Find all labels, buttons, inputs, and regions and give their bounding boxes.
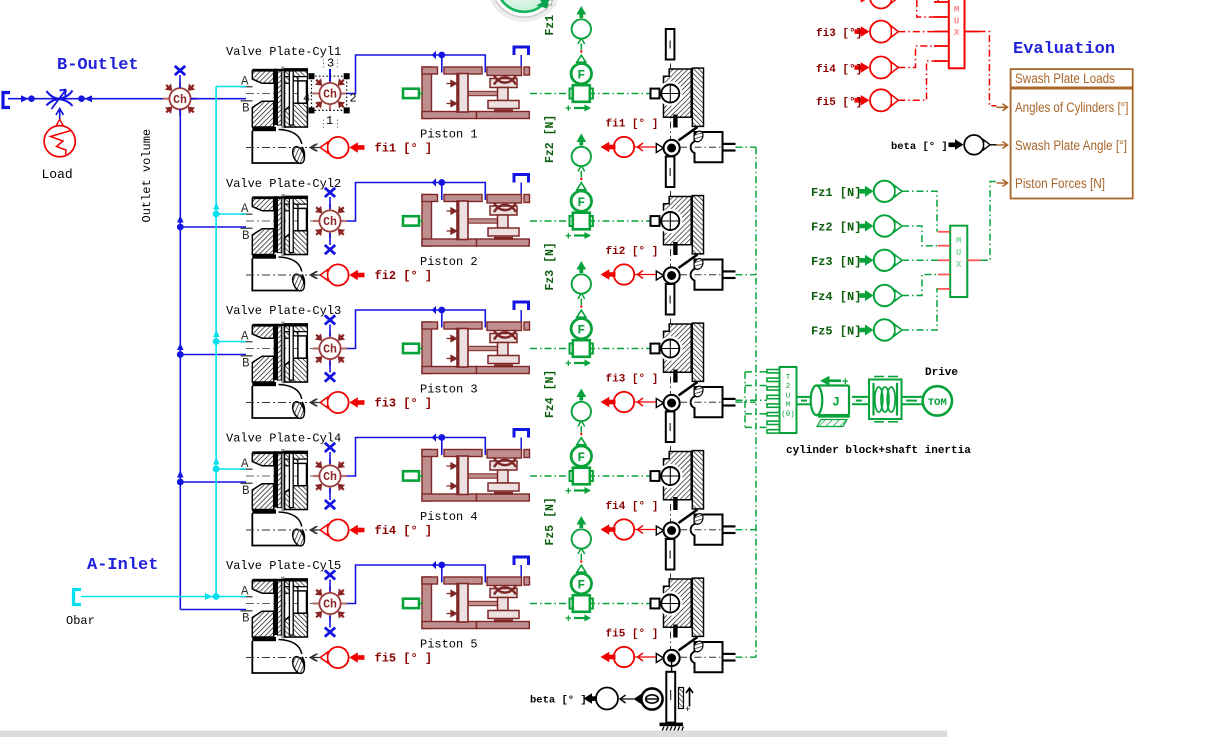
svg-text:1: 1 <box>326 114 333 128</box>
svg-text:fi2 [° ]: fi2 [° ] <box>375 269 433 283</box>
svg-text:U: U <box>954 17 959 27</box>
svg-text:M: M <box>954 5 959 15</box>
svg-text:Fz4 [N]: Fz4 [N] <box>544 370 557 418</box>
svg-text:Fz2 [N]: Fz2 [N] <box>544 115 557 163</box>
svg-text:Piston 3: Piston 3 <box>420 383 478 397</box>
svg-text:T: T <box>786 374 791 382</box>
svg-text:Fz2 [N]: Fz2 [N] <box>811 221 861 235</box>
svg-text:Fz5 [N]: Fz5 [N] <box>811 325 861 339</box>
svg-text:fi5 [° ]: fi5 [° ] <box>375 652 433 666</box>
svg-text:beta [° ]: beta [° ] <box>891 141 948 153</box>
svg-text:Outlet volume: Outlet volume <box>140 129 154 223</box>
svg-text:fi4 [° ]: fi4 [° ] <box>375 524 433 538</box>
svg-text:2: 2 <box>786 383 791 391</box>
svg-text:fi2 [° ]: fi2 [° ] <box>606 246 659 258</box>
svg-text:Evaluation: Evaluation <box>1013 40 1115 59</box>
svg-text:Drive: Drive <box>925 367 958 379</box>
svg-text:M: M <box>956 236 961 246</box>
svg-text:4: 4 <box>303 92 310 106</box>
svg-text:fi1 [° ]: fi1 [° ] <box>375 142 433 156</box>
svg-text:Angles of Cylinders [°]: Angles of Cylinders [°] <box>1015 100 1129 115</box>
svg-text:fi5 [° ]: fi5 [° ] <box>606 629 659 641</box>
svg-text:Swash Plate Angle [°]: Swash Plate Angle [°] <box>1015 138 1127 153</box>
svg-text:J: J <box>832 395 840 410</box>
svg-text:M: M <box>786 402 791 410</box>
svg-text:U: U <box>786 392 791 400</box>
svg-text:fi1 [° ]: fi1 [° ] <box>606 119 659 131</box>
svg-text:X: X <box>954 28 960 38</box>
svg-text:Piston 1: Piston 1 <box>420 128 478 142</box>
svg-text:Valve Plate-Cyl4: Valve Plate-Cyl4 <box>226 432 341 446</box>
svg-text:Valve Plate-Cyl1: Valve Plate-Cyl1 <box>226 45 341 59</box>
svg-text:Piston Forces [N]: Piston Forces [N] <box>1015 176 1105 191</box>
svg-text:B-Outlet: B-Outlet <box>57 56 139 75</box>
svg-text:fi3 [°]: fi3 [°] <box>816 28 862 40</box>
svg-text:+: + <box>842 377 849 389</box>
svg-text:Load: Load <box>42 167 73 182</box>
svg-text:Swash Plate Loads: Swash Plate Loads <box>1015 71 1115 86</box>
svg-text:fi5 [°]: fi5 [°] <box>816 97 862 109</box>
svg-text:fi4 [° ]: fi4 [° ] <box>606 501 659 513</box>
svg-text:Fz3 [N]: Fz3 [N] <box>544 242 557 290</box>
svg-text:U: U <box>956 248 961 258</box>
svg-text:fi3 [° ]: fi3 [° ] <box>375 397 433 411</box>
svg-text:Valve Plate-Cyl3: Valve Plate-Cyl3 <box>226 304 341 318</box>
svg-text:2: 2 <box>350 92 357 106</box>
svg-text:Obar: Obar <box>66 614 95 628</box>
svg-text:TOM: TOM <box>928 397 947 409</box>
svg-text:+: + <box>685 705 690 715</box>
svg-text:beta [° ]: beta [° ] <box>530 695 587 707</box>
svg-text:Fz3 [N]: Fz3 [N] <box>811 255 861 269</box>
svg-text:Fz5 [N]: Fz5 [N] <box>544 497 557 545</box>
svg-text:fi4 [°]: fi4 [°] <box>816 64 862 76</box>
svg-text:X: X <box>956 260 962 270</box>
svg-text:fi3 [° ]: fi3 [° ] <box>606 374 659 386</box>
svg-text:(θ): (θ) <box>781 411 795 419</box>
svg-text:Valve Plate-Cyl5: Valve Plate-Cyl5 <box>226 559 341 573</box>
svg-text:Piston 4: Piston 4 <box>420 510 478 524</box>
svg-text:Piston 5: Piston 5 <box>420 638 478 652</box>
svg-text:Fz4 [N]: Fz4 [N] <box>811 290 861 304</box>
svg-text:A-Inlet: A-Inlet <box>87 556 158 575</box>
svg-text:Valve Plate-Cyl2: Valve Plate-Cyl2 <box>226 177 341 191</box>
svg-text:Fz1 [N]: Fz1 [N] <box>811 186 861 200</box>
svg-text:Piston 2: Piston 2 <box>420 255 478 269</box>
svg-text:cylinder block+shaft inertia: cylinder block+shaft inertia <box>786 445 971 457</box>
